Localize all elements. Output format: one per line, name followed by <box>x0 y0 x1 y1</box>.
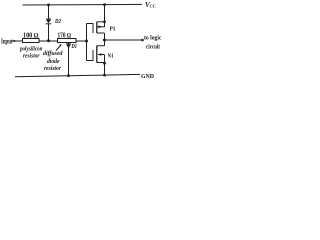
svg-text:circuit: circuit <box>146 44 161 51</box>
svg-text:VCC: VCC <box>145 1 156 9</box>
svg-text:diode: diode <box>47 59 60 65</box>
svg-text:D2: D2 <box>54 19 61 25</box>
svg-text:to logic: to logic <box>144 34 162 41</box>
svg-text:Input: Input <box>1 38 13 46</box>
svg-text:P1: P1 <box>110 26 116 32</box>
svg-text:diffused: diffused <box>43 51 63 57</box>
svg-text:100 Ω: 100 Ω <box>23 32 39 39</box>
svg-text:resistor: resistor <box>23 54 40 60</box>
svg-text:resistor: resistor <box>44 66 62 72</box>
svg-text:D1: D1 <box>71 44 77 50</box>
svg-text:170 Ω: 170 Ω <box>58 32 72 39</box>
svg-text:polysilicon: polysilicon <box>19 47 43 53</box>
svg-text:N1: N1 <box>108 53 114 59</box>
svg-text:GND: GND <box>141 74 155 80</box>
